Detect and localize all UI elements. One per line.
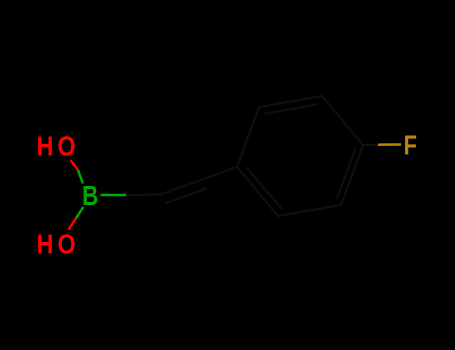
svg-text:B: B xyxy=(82,181,102,212)
svg-text:HO: HO xyxy=(37,131,80,161)
svg-text:F: F xyxy=(404,130,421,161)
svg-text:HO: HO xyxy=(37,229,80,259)
